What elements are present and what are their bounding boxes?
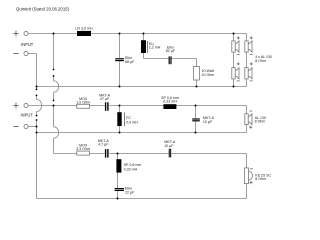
svg-text:8 Ohm: 8 Ohm (255, 177, 266, 181)
svg-text:0,9 mH: 0,9 mH (126, 120, 138, 124)
svg-text:47 µF: 47 µF (100, 97, 110, 101)
svg-text:LR 3,9 mH: LR 3,9 mH (75, 26, 93, 30)
svg-text:10 Ohm: 10 Ohm (202, 73, 215, 77)
svg-text:1,0 Ohm: 1,0 Ohm (76, 100, 90, 104)
svg-text:4,7 µF: 4,7 µF (98, 143, 109, 147)
svg-text:68 µF: 68 µF (125, 60, 135, 64)
svg-text:INPUT: INPUT (21, 42, 34, 47)
svg-text:10 µF: 10 µF (203, 120, 213, 124)
svg-text:82 µF: 82 µF (166, 49, 176, 53)
svg-text:2,2 mH: 2,2 mH (149, 46, 161, 50)
svg-text:8 Ohm: 8 Ohm (255, 120, 266, 124)
svg-text:8 Ohm: 8 Ohm (255, 59, 266, 63)
svg-text:SP 0,6 mm: SP 0,6 mm (124, 163, 142, 167)
svg-text:10 µF: 10 µF (164, 144, 174, 148)
svg-text:FC: FC (126, 116, 131, 120)
svg-text:0,33 mH: 0,33 mH (163, 99, 177, 103)
svg-text:Quintett (Stand 29.06.2015): Quintett (Stand 29.06.2015) (16, 6, 70, 11)
svg-text:0,33 mH: 0,33 mH (124, 168, 138, 172)
svg-text:22 µF: 22 µF (125, 190, 135, 194)
svg-text:3,3 Ohm: 3,3 Ohm (76, 147, 90, 151)
svg-text:INPUT: INPUT (21, 112, 34, 117)
